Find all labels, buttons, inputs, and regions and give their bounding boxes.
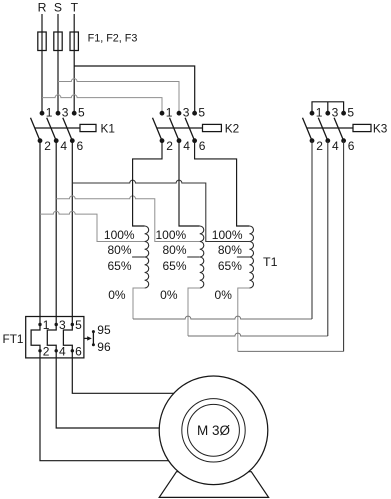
svg-text:3: 3	[332, 105, 339, 119]
winding1 65% tap stub	[132, 256, 145, 258]
svg-text:4: 4	[59, 344, 66, 358]
svg-text:2: 2	[166, 139, 173, 153]
K3 pin 6 dot	[341, 138, 346, 143]
motor M body circle	[159, 376, 268, 485]
autotransformer T1 winding 1 coil	[145, 226, 149, 288]
svg-text:S: S	[54, 1, 62, 15]
svg-text:M 3Ø: M 3Ø	[197, 423, 231, 438]
K2 contact blade 3-4	[170, 118, 180, 141]
svg-text:100%: 100%	[212, 228, 243, 242]
svg-text:2: 2	[43, 344, 50, 358]
svg-text:FT1: FT1	[3, 332, 24, 346]
contactor K2	[153, 105, 240, 153]
wire K1-6 down to FT1 pin5	[71, 141, 73, 325]
thermal overload relay FT1	[3, 317, 111, 359]
K1 coil box	[80, 124, 96, 131]
wire K1-2 branch to T1 winding1 80% tap (hops)	[40, 211, 145, 241]
svg-text:6: 6	[348, 139, 355, 153]
FT1 trip arrow	[84, 337, 88, 339]
K1 contact blade 3-4	[47, 118, 57, 141]
svg-text:6: 6	[77, 139, 84, 153]
wire R branch to K2-1 (hops over S,T)	[42, 95, 162, 111]
K3 contact blade 3-4	[318, 118, 328, 141]
contactor K1	[31, 105, 115, 153]
K1 pin 6 dot	[70, 138, 75, 143]
K3 contact blade 1-2	[303, 118, 313, 141]
wire winding2 0% to K3-4 (hop)	[188, 333, 328, 336]
svg-text:K2: K2	[225, 121, 239, 135]
svg-text:2: 2	[44, 139, 51, 153]
K3 contact blade 5-6	[334, 118, 344, 141]
autotransformer T1 winding 2 coil	[200, 226, 204, 288]
svg-text:96: 96	[97, 340, 111, 354]
motor inner ring inner	[188, 404, 240, 456]
wire T branch to K2-5	[74, 66, 195, 111]
contactor K3	[303, 102, 388, 153]
wire phase T vertical	[73, 14, 75, 113]
svg-text:5: 5	[78, 105, 85, 119]
svg-text:T: T	[71, 1, 79, 15]
svg-text:1: 1	[166, 105, 173, 119]
K3 pin 4 dot	[325, 138, 330, 143]
svg-text:F1, F2, F3: F1, F2, F3	[88, 33, 138, 45]
FT1 heater element 1	[31, 325, 40, 351]
K1 contact blade 5-6	[63, 118, 73, 141]
winding1 0% bottom wire down	[133, 288, 145, 319]
K3 linkage line	[307, 127, 353, 129]
wire FT1-6 to motor	[72, 351, 214, 394]
wire K1-4 down to FT1 pin3	[55, 141, 57, 325]
wire S branch to K2-3 (hop over T)	[58, 79, 179, 111]
winding3 65% tap stub	[237, 256, 250, 258]
svg-text:T1: T1	[263, 255, 278, 269]
K2 pin 1 dot	[160, 111, 165, 116]
K2 pin 5 dot	[192, 111, 197, 116]
svg-text:65%: 65%	[162, 259, 186, 273]
FT1 pin 2 dot	[38, 349, 41, 352]
svg-text:5: 5	[198, 105, 205, 119]
svg-text:K1: K1	[101, 121, 115, 135]
wire FT1-2 to motor	[40, 351, 214, 461]
motor M feet	[159, 472, 268, 498]
K3 pin 5 dot	[341, 111, 346, 116]
K1 linkage line	[35, 127, 80, 129]
FT1 heater element 2	[47, 325, 56, 351]
svg-text:5: 5	[75, 318, 82, 332]
K3 pin 2 dot	[310, 138, 315, 143]
K3 pin 1 dot	[310, 111, 315, 116]
svg-text:80%: 80%	[162, 243, 186, 257]
svg-text:6: 6	[199, 139, 206, 153]
FT1 pin 3 dot	[55, 323, 58, 326]
svg-text:K3: K3	[373, 121, 388, 135]
fuse F2	[54, 32, 62, 51]
svg-text:0%: 0%	[215, 288, 233, 302]
svg-text:R: R	[38, 1, 47, 15]
svg-text:0%: 0%	[160, 288, 178, 302]
svg-text:80%: 80%	[218, 243, 242, 257]
svg-text:1: 1	[316, 105, 323, 119]
svg-text:100%: 100%	[155, 228, 186, 242]
wire K1-4 branch to T1 winding2 80% tap (hops)	[56, 196, 200, 242]
K3 pin 3 dot	[325, 111, 330, 116]
K3 shorting bar	[312, 102, 344, 113]
K2 linkage line	[157, 127, 203, 129]
K1 contact blade 1-2	[31, 118, 41, 141]
svg-text:4: 4	[60, 139, 67, 153]
motor inner ring outer	[182, 399, 245, 462]
K1 pin 1 dot	[40, 111, 45, 116]
K2 pin 6 dot	[192, 138, 197, 143]
fuse F3	[70, 32, 78, 51]
fuse F1	[38, 32, 46, 51]
wire K1-6 branch to T1 winding3 80% tap (hops over K2 feeds)	[72, 180, 249, 241]
K2 pin 3 dot	[177, 111, 182, 116]
wire K3-2 vertical	[311, 141, 313, 319]
svg-text:4: 4	[332, 139, 339, 153]
wire K3-6 vertical	[343, 141, 345, 352]
svg-text:100%: 100%	[104, 228, 135, 242]
winding2 0% bottom wire down	[188, 288, 200, 336]
K2 contact blade 5-6	[185, 118, 195, 141]
K1 pin 4 dot	[54, 138, 59, 143]
wire winding3 0% to K3-6	[238, 350, 344, 352]
FT1 pin 6 dot	[71, 349, 74, 352]
winding2 65% tap stub	[187, 256, 200, 258]
FT1 pin 1 dot	[38, 323, 41, 326]
K2 contact blade 1-2	[153, 118, 163, 141]
FT1 aux contact 95-96 bar	[92, 331, 94, 345]
wire FT1-4 to motor	[56, 351, 214, 428]
svg-text:65%: 65%	[218, 259, 242, 273]
wire phase R vertical	[41, 14, 43, 113]
K1 pin 2 dot	[38, 138, 43, 143]
FT1 pin 5 dot	[71, 323, 74, 326]
wire K1-2 down to FT1 pin1	[39, 141, 41, 325]
svg-text:5: 5	[347, 105, 354, 119]
K2 pin 4 dot	[177, 138, 182, 143]
svg-text:1: 1	[46, 105, 53, 119]
wire K2-4 to winding2 100% top	[179, 141, 200, 226]
K2 pin 2 dot	[160, 138, 165, 143]
wire K3-4 vertical	[327, 141, 329, 336]
autotransformer T1 winding 3 coil	[249, 226, 253, 288]
svg-text:80%: 80%	[107, 243, 131, 257]
wire K2-6 to winding3 100% top	[195, 141, 250, 226]
svg-text:3: 3	[62, 105, 69, 119]
svg-text:3: 3	[183, 105, 190, 119]
FT1 pin 4 dot	[55, 349, 58, 352]
svg-text:0%: 0%	[108, 288, 126, 302]
K1 pin 5 dot	[72, 111, 77, 116]
wire winding1 0% to K3-2 (hops over other 0% wires)	[133, 316, 312, 319]
FT1 heater element 3	[63, 325, 72, 351]
svg-text:2: 2	[316, 139, 323, 153]
svg-text:95: 95	[97, 323, 111, 337]
wire K2-2 to winding1 100% top	[133, 141, 162, 226]
FT1 box	[26, 317, 84, 358]
svg-text:4: 4	[183, 139, 190, 153]
K1 pin 3 dot	[56, 111, 61, 116]
K2 coil box	[203, 124, 222, 131]
svg-text:65%: 65%	[107, 259, 131, 273]
svg-text:6: 6	[75, 344, 82, 358]
winding3 0% bottom wire down	[238, 288, 250, 351]
wire phase S vertical	[57, 14, 59, 113]
K3 coil box	[353, 124, 371, 131]
